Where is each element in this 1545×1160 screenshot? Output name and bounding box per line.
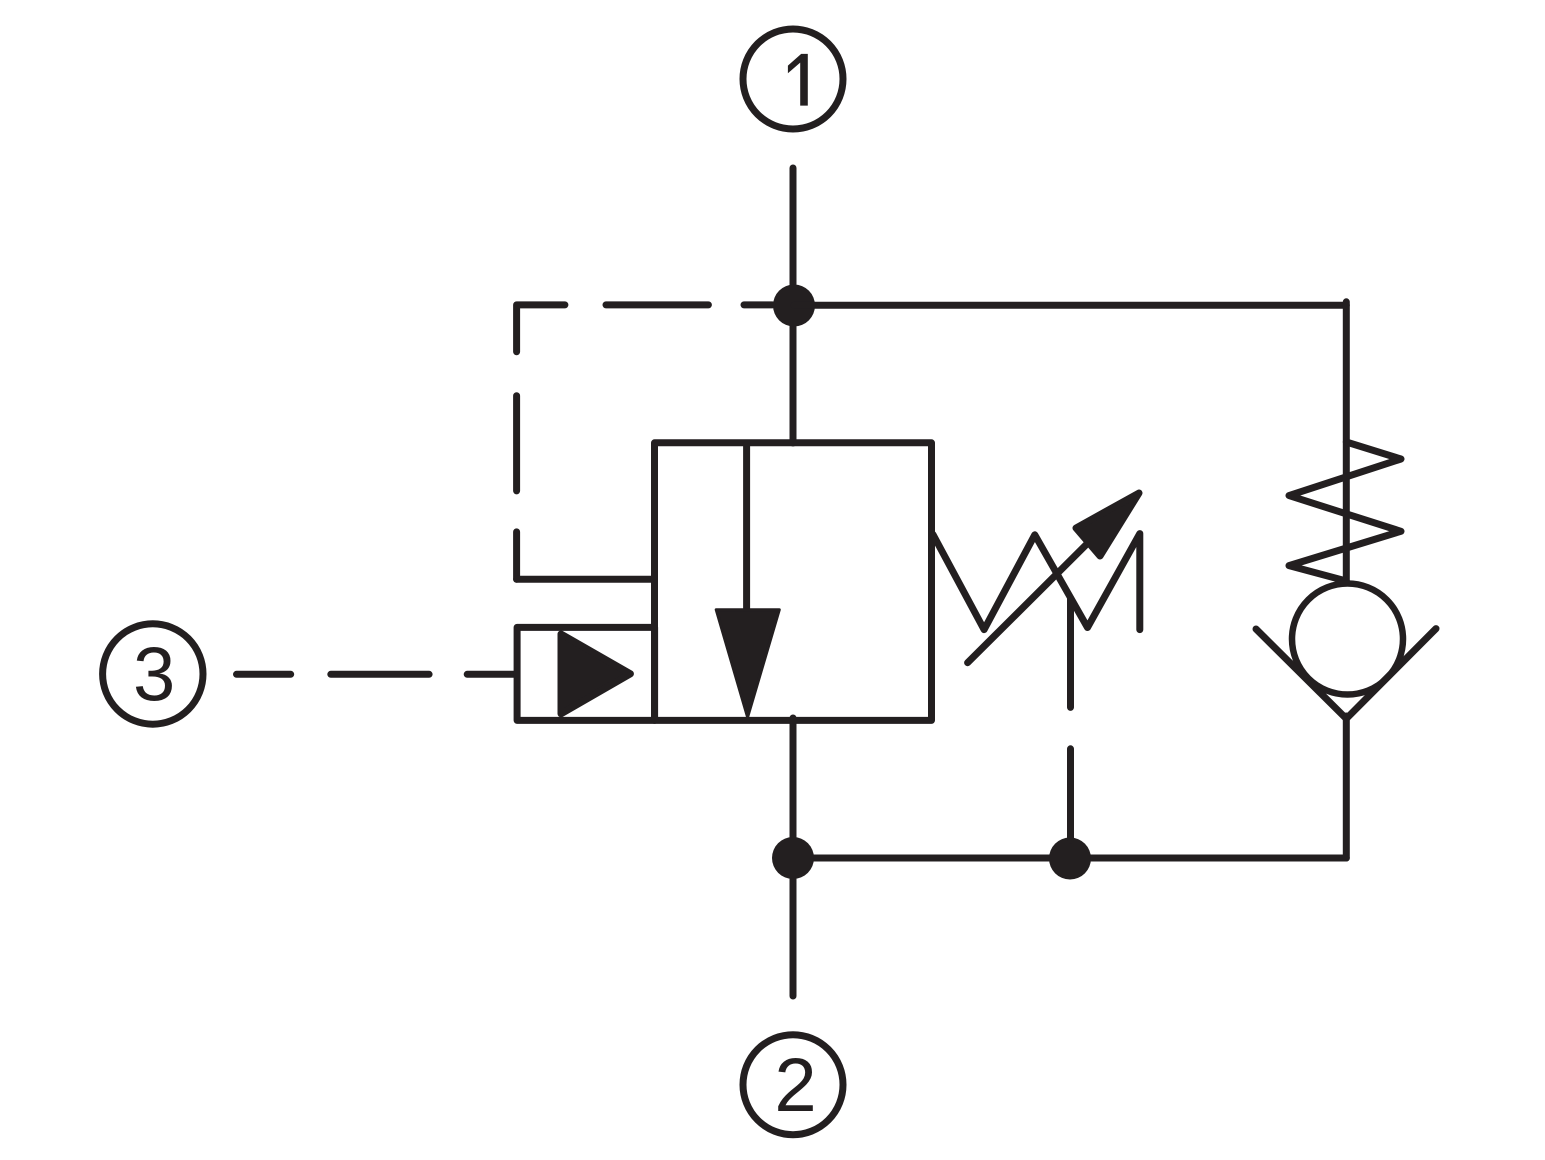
pilot actuator arrow xyxy=(561,634,630,714)
junction node A (port 1 / branch) xyxy=(773,285,815,327)
junction node C (pilot sense on bottom rail) xyxy=(1049,838,1091,880)
port 3 xyxy=(103,624,203,724)
adjustment arrow shaft xyxy=(968,513,1118,663)
wire: bottom rail xyxy=(793,855,1346,862)
adjustment arrow head xyxy=(1076,493,1139,556)
wire: check valve to bottom rail xyxy=(1343,716,1350,858)
check valve poppet (ball) xyxy=(1292,584,1403,695)
check valve seat xyxy=(1256,629,1436,719)
pilot line: spring chamber to node C (dashed) xyxy=(1067,599,1074,840)
port 1 xyxy=(743,29,843,129)
svg-text:3: 3 xyxy=(133,632,175,717)
spring: check valve spring xyxy=(1289,442,1401,581)
flow arrow (down) xyxy=(716,610,779,718)
pilot connection: solid corner into valve body xyxy=(517,576,651,583)
junction node B (port 2 rail) xyxy=(772,837,814,879)
wire: port 1 to valve inlet xyxy=(790,168,797,443)
pilot line: port 3 to pilot actuator (dashed) xyxy=(237,671,518,678)
pilot actuator box xyxy=(517,627,655,720)
port 1 label "1" xyxy=(788,54,808,106)
wire: node A to check-valve branch (top rail) xyxy=(794,302,1346,309)
svg-text:2: 2 xyxy=(774,1043,816,1128)
valve envelope (main stage) xyxy=(655,443,932,721)
wire: check-valve branch vertical xyxy=(1343,302,1350,581)
pilot line: node A to valve (dashed, corner) xyxy=(517,305,773,579)
wire: valve outlet to port 2 xyxy=(790,718,797,996)
port 2 xyxy=(743,1035,843,1135)
spring: main relief spring xyxy=(933,534,1140,630)
spool flow path line xyxy=(743,443,750,612)
